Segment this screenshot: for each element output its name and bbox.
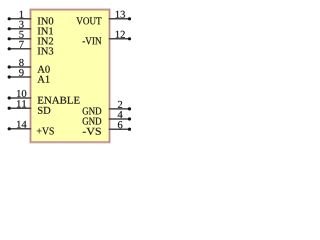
pin number 6 — [118, 121, 123, 128]
wire pin 2 — [109, 108, 130, 110]
pin label ENABLE — [38, 97, 80, 104]
wire pin 3 — [9, 28, 31, 30]
pin number 10 — [17, 90, 26, 97]
node pin 4 dot — [128, 117, 131, 120]
pin label IN0 — [38, 17, 54, 24]
pin number 14 — [17, 121, 27, 128]
pin label -VIN — [83, 37, 102, 44]
node pin 10 dot — [8, 96, 11, 99]
wire pin 8 — [9, 66, 31, 68]
wire pin 1 — [9, 18, 31, 20]
pin label GND — [83, 118, 102, 125]
wire pin 9 — [9, 76, 31, 78]
IC body U1 — [31, 10, 110, 142]
node pin 5 dot — [8, 37, 11, 40]
wire pin 6 — [109, 128, 130, 130]
node pin 3 dot — [8, 27, 11, 30]
pin label IN2 — [38, 37, 53, 44]
node pin 14 dot — [8, 127, 11, 130]
pin number 12 — [116, 31, 125, 38]
pin label VOUT — [76, 17, 101, 24]
pin number 3 — [19, 21, 23, 28]
wire pin 5 — [9, 38, 31, 40]
pin number 1 — [20, 11, 24, 18]
wire pin 14 — [9, 128, 31, 130]
node pin 7 dot — [8, 47, 11, 50]
pin label IN3 — [38, 47, 54, 54]
pin label +VS — [37, 127, 54, 134]
pin label A0 — [37, 66, 49, 73]
node pin 12 dot — [128, 37, 131, 40]
pin label A1 — [37, 76, 49, 83]
wire pin 12 — [109, 38, 130, 40]
node pin 13 dot — [128, 17, 131, 20]
wire pin 7 — [9, 48, 31, 50]
node pin 9 dot — [8, 75, 11, 78]
pin label -VS — [83, 128, 101, 135]
node pin 11 dot — [8, 107, 11, 110]
pin number 11 — [17, 100, 26, 107]
pin label IN1 — [38, 27, 53, 34]
node pin 8 dot — [8, 65, 11, 68]
node pin 1 dot — [8, 17, 11, 20]
pin number 9 — [19, 69, 24, 76]
node pin 6 dot — [128, 128, 131, 131]
pin number 4 — [118, 111, 123, 118]
node pin 2 dot — [128, 107, 131, 110]
wire pin 10 — [9, 97, 31, 99]
pin label GND — [83, 107, 102, 114]
pin number 7 — [19, 41, 23, 48]
wire pin 4 — [109, 118, 130, 120]
wire pin 11 — [9, 107, 31, 109]
wire pin 13 — [109, 18, 130, 20]
pin number 5 — [19, 31, 23, 38]
pin number 13 — [116, 11, 125, 18]
pin number 8 — [19, 59, 24, 66]
pin label SD — [38, 107, 50, 114]
pin number 2 — [118, 101, 122, 108]
